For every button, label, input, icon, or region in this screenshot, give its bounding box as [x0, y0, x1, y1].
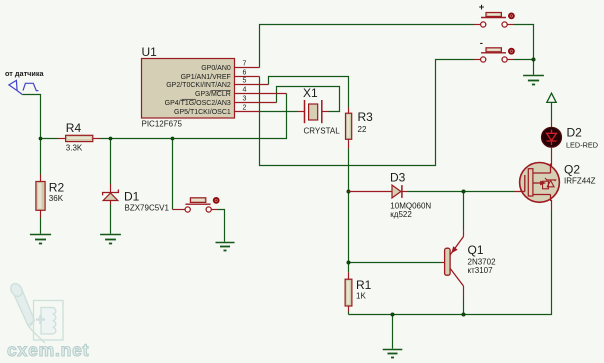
- wire base node down to R1: [348, 263, 350, 273]
- junction base node: [347, 261, 351, 265]
- power terminal VCC arrow: [547, 93, 556, 102]
- svg-text:3.3K: 3.3K: [66, 143, 83, 152]
- svg-text:кт3107: кт3107: [468, 266, 494, 275]
- ground (SW3): [216, 243, 235, 251]
- wire pin3 to crystal right: [277, 87, 340, 112]
- svg-text:Q1: Q1: [468, 243, 484, 257]
- sensor terminal symbol: [9, 80, 39, 94]
- zener diode D1 BZX79C5V1: [103, 184, 119, 205]
- wire node A down to R2: [40, 139, 42, 175]
- ground (bottom rail): [383, 350, 403, 358]
- svg-text:4: 4: [243, 87, 247, 94]
- wire node B down to D1: [110, 139, 112, 185]
- wire R3 bottom to D3 node: [348, 149, 350, 192]
- junction buttons ground: [532, 58, 536, 62]
- svg-text:7: 7: [243, 61, 247, 68]
- svg-text:R1: R1: [356, 278, 372, 292]
- svg-text:IRFZ44Z: IRFZ44Z: [564, 177, 596, 186]
- junction bottom ground: [391, 313, 395, 317]
- svg-text:D1: D1: [124, 189, 140, 203]
- junction D3 anode node: [347, 190, 351, 194]
- wire bottom rail: [349, 211, 552, 315]
- wire SW1 right to corner: [514, 25, 534, 60]
- transistor Q2 IRFZ44Z MOSFET: [515, 163, 560, 211]
- svg-text:2: 2: [243, 105, 247, 112]
- node B junction: [109, 137, 113, 141]
- svg-text:-: -: [480, 38, 483, 49]
- U1 pin numbers: [243, 61, 247, 112]
- wire R1 bottom corner: [348, 312, 350, 315]
- wire gate node down to Q1 emitter: [463, 192, 465, 231]
- wire SW3 right to ground: [218, 210, 225, 242]
- wire D1 anode to ground: [110, 205, 112, 234]
- wire rail left (node A): [41, 138, 59, 140]
- pin 3 stub GP4: [235, 102, 277, 104]
- wire base node to Q1 base: [349, 262, 442, 264]
- ground (buttons): [523, 76, 544, 85]
- svg-text:GP0/AN0: GP0/AN0: [201, 65, 231, 72]
- junction Q1 collector rail: [462, 313, 466, 317]
- svg-text:1K: 1K: [356, 292, 366, 301]
- resistor R2: [36, 175, 45, 218]
- svg-text:R3: R3: [358, 110, 374, 124]
- ground (D1): [100, 235, 121, 244]
- ground (R2): [30, 235, 51, 244]
- wire gate node to Q2 gate: [464, 191, 515, 193]
- resistor R1: [345, 272, 352, 311]
- svg-text:X1: X1: [303, 86, 318, 100]
- node A junction: [39, 137, 43, 141]
- svg-text:GP1/AN1/VREF: GP1/AN1/VREF: [181, 74, 231, 81]
- U1 pin name labels: [165, 65, 231, 116]
- svg-text:R4: R4: [66, 121, 82, 135]
- svg-text:D3: D3: [390, 170, 406, 184]
- SENSOR: [5, 69, 45, 95]
- push button SW3 reset: [173, 197, 220, 212]
- transistor Q1 2N3702 PNP: [442, 231, 464, 298]
- MCLR overline: [211, 89, 231, 91]
- pin 7 stub GP0: [235, 67, 260, 69]
- svg-text:GP3/MCLR: GP3/MCLR: [195, 91, 231, 98]
- svg-text:U1: U1: [142, 45, 158, 59]
- wire D3 cathode to gate node: [408, 191, 464, 193]
- svg-text:GP5/T1CKI/OSC1: GP5/T1CKI/OSC1: [174, 109, 231, 116]
- pin 6 stub GP1: [235, 76, 260, 78]
- svg-text:LED-RED: LED-RED: [566, 140, 598, 149]
- wire Q1 collector down to bottom rail: [463, 298, 465, 315]
- push button SW2 minus: [474, 48, 515, 62]
- svg-text:R2: R2: [49, 181, 65, 195]
- T1G overline: [182, 98, 196, 100]
- svg-text:+: +: [479, 2, 485, 13]
- op-amp U1 PIC12F675 body: [142, 59, 235, 119]
- LED D2: [542, 120, 562, 167]
- wire D3 node down to base node: [348, 192, 350, 263]
- svg-text:22: 22: [358, 125, 367, 134]
- U1 pin stubs: [235, 68, 287, 112]
- wire pin6 down and right to - button: [260, 60, 475, 166]
- wire pin5 jog to R3 top: [269, 77, 349, 108]
- pin 5 stub GP2: [235, 84, 269, 86]
- wire ground stem (bottom): [392, 315, 394, 349]
- svg-text:BZX79C5V1: BZX79C5V1: [125, 203, 170, 212]
- wire junction to ground (buttons): [533, 60, 535, 75]
- svg-text:Q2: Q2: [564, 162, 580, 176]
- wire pin7 up to + button: [260, 25, 475, 68]
- crystal X1: [297, 100, 329, 123]
- wire SW2 right to junction: [514, 59, 534, 61]
- svg-text:cxem.net: cxem.net: [7, 340, 89, 360]
- pin 4 stub GP3: [235, 93, 287, 95]
- resistor R3: [346, 108, 352, 149]
- svg-text:от датчика: от датчика: [5, 69, 45, 78]
- WATERMARK: [8, 281, 63, 343]
- wire pin2 to crystal left: [260, 111, 298, 113]
- svg-text:5: 5: [243, 78, 247, 85]
- svg-text:GP4/T1G/OSC2/AN3: GP4/T1G/OSC2/AN3: [165, 100, 231, 107]
- svg-text:3: 3: [243, 96, 247, 103]
- svg-text:CRYSTAL: CRYSTAL: [304, 126, 341, 135]
- resistor R4: [58, 135, 101, 141]
- junction gate node: [462, 190, 466, 194]
- svg-text:6: 6: [243, 70, 247, 77]
- node C junction: [171, 137, 175, 141]
- svg-text:36K: 36K: [49, 194, 64, 203]
- diode D3 10MQ060N: [349, 185, 408, 198]
- wire R2 bottom to ground: [40, 218, 42, 234]
- wire power terminal down to LED: [551, 103, 553, 120]
- svg-text:GP2/T0CKI/INT/AN2: GP2/T0CKI/INT/AN2: [166, 82, 231, 89]
- wire R4 right to pin4 riser: [101, 94, 287, 139]
- push button SW1 plus: [474, 13, 515, 28]
- svg-text:кд522: кд522: [390, 210, 412, 219]
- wire sensor to rail: [22, 95, 40, 139]
- wire node C down to button SW3: [172, 139, 174, 210]
- svg-text:PIC12F675: PIC12F675: [142, 120, 183, 129]
- svg-text:D2: D2: [567, 125, 583, 139]
- pin 2 stub GP5: [235, 111, 260, 113]
